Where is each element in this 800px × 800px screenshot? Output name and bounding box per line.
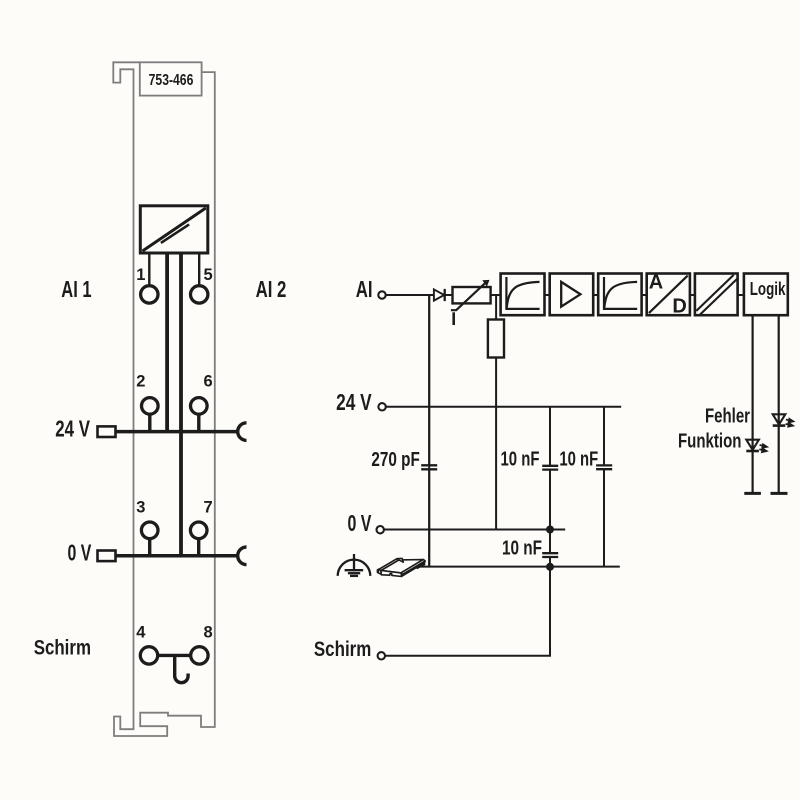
rail near rim bar <box>401 560 425 575</box>
wire to resistor <box>495 295 497 320</box>
svg-text:10 nF: 10 nF <box>502 538 542 560</box>
capacitor C2 10nF leg <box>549 407 551 466</box>
pin 1 <box>141 286 158 303</box>
capacitor 270pF <box>421 464 437 466</box>
pin 8 <box>191 647 208 664</box>
wire source to filter1 <box>491 294 501 296</box>
MODULE-LEFT <box>34 62 287 736</box>
Logik box <box>744 274 788 316</box>
wire ad-iso <box>690 294 695 296</box>
rail near rim outer face <box>402 561 425 576</box>
isolation box <box>695 274 738 316</box>
diode D1 <box>434 289 444 300</box>
rail far rim end cap <box>397 558 403 562</box>
LED Fehler <box>773 414 786 424</box>
pin 7 stem <box>197 537 200 556</box>
svg-text:D: D <box>672 296 686 318</box>
DIN rail 3D symbol <box>377 558 425 576</box>
0V jumper contact arc <box>238 547 247 565</box>
svg-text:24 V: 24 V <box>336 389 372 415</box>
svg-text:8: 8 <box>204 623 213 641</box>
pin 2 <box>142 398 159 415</box>
24V clamp terminal <box>98 426 116 437</box>
svg-text:7: 7 <box>204 499 213 517</box>
amplifier box <box>550 274 594 316</box>
svg-text:4: 4 <box>136 623 146 641</box>
wire f2-ad <box>642 294 647 296</box>
svg-text:AI: AI <box>356 276 373 302</box>
rail far rim bar <box>379 559 399 571</box>
svg-text:Schirm: Schirm <box>34 635 91 659</box>
Schirm terminal <box>378 652 385 659</box>
svg-text:2: 2 <box>136 373 145 391</box>
0V terminal <box>377 526 384 533</box>
earth ground symbol <box>338 554 371 576</box>
svg-text:A: A <box>649 271 663 293</box>
A/D converter box <box>647 274 690 316</box>
svg-text:270 pF: 270 pF <box>371 449 419 471</box>
svg-text:5: 5 <box>204 266 213 284</box>
0V rail wire <box>384 529 565 531</box>
LED wire left (Funktion) <box>751 315 753 493</box>
24V jumper contact arc <box>238 423 247 441</box>
adjustable current source <box>453 287 491 303</box>
internal bus wire B <box>179 253 183 556</box>
LED end bar right <box>771 492 788 495</box>
pin4-pin8 link wire <box>158 654 191 657</box>
pin 4 <box>140 647 157 664</box>
svg-text:24 V: 24 V <box>55 416 90 442</box>
capacitor C3 10nF leg <box>603 407 605 466</box>
pin 2 stem <box>148 413 151 432</box>
0V clamp terminal <box>98 551 116 562</box>
24V rail wire <box>387 406 622 408</box>
AI terminal <box>378 291 385 298</box>
svg-text:6: 6 <box>204 373 213 391</box>
rail left flange stub <box>377 569 378 573</box>
capacitor 270pF wire <box>428 295 430 465</box>
label box 753-466 <box>140 62 202 95</box>
pin 3 stem <box>148 537 151 556</box>
svg-text:10 nF: 10 nF <box>501 449 540 471</box>
junction node 0V <box>546 526 554 534</box>
branch wire AI to chassis <box>428 295 430 567</box>
resistor R1 <box>488 320 504 358</box>
CIRCUIT-RIGHT <box>314 271 793 661</box>
pin 3 <box>141 522 158 539</box>
LED end bar left <box>744 492 761 495</box>
Schirm wire <box>386 655 552 657</box>
chassis rail wire <box>416 566 620 568</box>
rail right flange wedge <box>415 563 425 568</box>
svg-text:10 nF: 10 nF <box>559 449 598 471</box>
rail front faces with notch <box>381 570 402 576</box>
svg-text:753-466: 753-466 <box>149 72 194 89</box>
wire iso-logik <box>738 294 744 296</box>
pin 5 <box>191 286 208 303</box>
svg-text:1: 1 <box>136 266 145 284</box>
AI wire <box>386 294 434 296</box>
svg-text:0 V: 0 V <box>348 510 372 536</box>
svg-text:Schirm: Schirm <box>314 637 371 661</box>
pin 6 stem <box>197 413 200 432</box>
transducer box U1 <box>140 206 208 253</box>
wire amp-f2 <box>593 294 598 296</box>
wire f1-amp <box>545 294 550 296</box>
wire diode to source <box>445 294 453 296</box>
svg-text:AI 1: AI 1 <box>61 276 91 302</box>
svg-text:AI 2: AI 2 <box>256 276 287 302</box>
LED Funktion <box>746 440 759 450</box>
svg-text:0 V: 0 V <box>68 540 92 566</box>
svg-text:3: 3 <box>136 499 145 517</box>
24V terminal <box>378 403 385 410</box>
wire pin5 to box <box>198 253 200 287</box>
LED wire right (Fehler) <box>778 315 780 493</box>
filter box 2 <box>598 274 641 316</box>
junction node chassis <box>546 563 554 571</box>
shield hook <box>175 656 188 683</box>
filter box 1 <box>501 274 545 316</box>
internal bus wire A <box>165 253 169 432</box>
24V feed wire <box>116 430 238 434</box>
rail channel floor <box>381 560 423 573</box>
module outline <box>113 62 215 736</box>
svg-text:Logik: Logik <box>750 278 786 299</box>
wire pin1 to box <box>148 253 150 287</box>
label I <box>452 312 455 325</box>
0V feed wire <box>116 554 238 558</box>
svg-text:Funktion: Funktion <box>678 431 742 453</box>
svg-text:Fehler: Fehler <box>705 406 750 428</box>
pin 6 <box>191 398 208 415</box>
pin 7 <box>190 522 207 539</box>
capacitor C4 10nF (0V to chassis) <box>542 552 558 554</box>
wire resistor to 0V <box>495 358 497 530</box>
